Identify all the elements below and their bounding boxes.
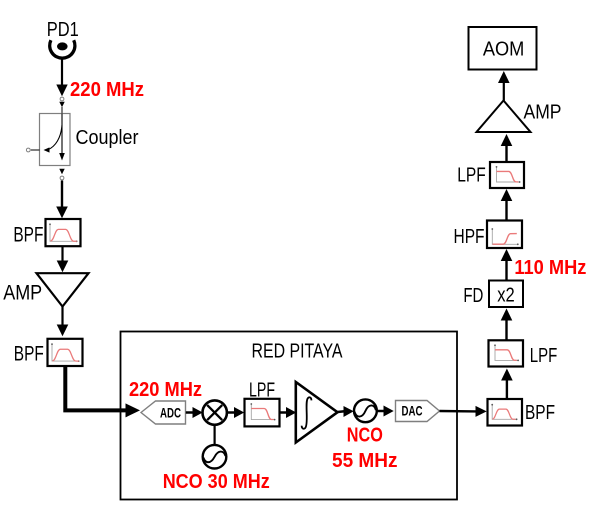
svg-text:NCO: NCO [347,424,383,446]
wire BPF to LPF (right chain) [501,369,513,400]
label NCO 55 MHz [332,424,398,471]
wire LPF to amplifier (right chain) [501,134,513,162]
band-pass filter BPF (right chain) [488,399,523,426]
wire coupler to BPF1 [56,181,68,219]
frequency doubler FD x2 [489,281,523,308]
wire DAC to BPF (right chain) [440,406,487,417]
svg-text:BPF: BPF [14,342,44,365]
photodiode PD1 [47,19,79,58]
svg-text:Coupler: Coupler [76,127,139,149]
svg-text:220 MHz: 220 MHz [129,379,202,401]
node: coupler output port [59,169,64,180]
wire integrator to NCO 55 MHz [338,406,354,417]
wire mixer to LPF [227,407,244,418]
low-pass filter LPF (Red Pitaya) [245,399,280,427]
wire HPF to LPF (top) [501,189,513,221]
wire LPF to integrator [280,407,296,418]
svg-text:AOM: AOM [483,38,525,60]
svg-text:BPF: BPF [13,223,43,246]
svg-text:DAC: DAC [402,404,423,419]
wire NCO to DAC [377,406,394,417]
svg-text:110 MHz: 110 MHz [514,257,586,279]
wire amplifier to AOM [498,71,510,101]
band-pass filter BPF1 [46,219,81,246]
svg-text:LPF: LPF [457,165,486,187]
wire ADC to mixer [186,407,203,418]
wire frequency doubler to HPF [501,249,513,281]
wire amplifier to BPF2 [57,307,69,337]
wire PD1 to coupler input [56,59,67,97]
oscillator NCO 30 MHz [203,445,227,469]
mixer [203,400,227,424]
svg-text:BPF: BPF [525,402,555,424]
coupler [26,114,70,166]
svg-text:220 MHz: 220 MHz [70,79,144,101]
svg-text:PD1: PD1 [47,19,79,41]
integrator [296,382,338,443]
svg-text:RED PITAYA: RED PITAYA [252,341,344,363]
AOM [469,27,537,70]
node: coupler input port [59,97,64,113]
DAC [396,401,440,422]
svg-text:LPF: LPF [530,345,558,367]
wire mixer to NCO 30 MHz [214,425,216,445]
wire BPF1 to amplifier [57,247,69,273]
high-pass filter HPF [487,221,522,249]
low-pass filter LPF (top right) [490,162,524,188]
svg-text:55 MHz: 55 MHz [332,450,398,472]
svg-text:ADC: ADC [160,405,181,420]
svg-text:FD: FD [463,285,483,307]
amplifier AMP (left chain) [37,273,89,306]
oscillator NCO 55 MHz [354,399,377,422]
Red Pitaya enclosure box [121,332,458,500]
amplifier AMP (right chain) [477,101,531,133]
low-pass filter LPF (right chain lower) [489,340,524,366]
svg-text:x2: x2 [497,285,515,307]
svg-text:NCO 30 MHz: NCO 30 MHz [163,471,270,493]
ADC [141,401,186,424]
svg-text:AMP: AMP [524,101,562,123]
wire LPF to frequency doubler [501,309,513,341]
band-pass filter BPF2 [48,339,83,366]
svg-text:HPF: HPF [454,226,485,248]
wire BPF2 to ADC (thick elbow) [65,366,140,417]
svg-text:AMP: AMP [3,281,42,304]
